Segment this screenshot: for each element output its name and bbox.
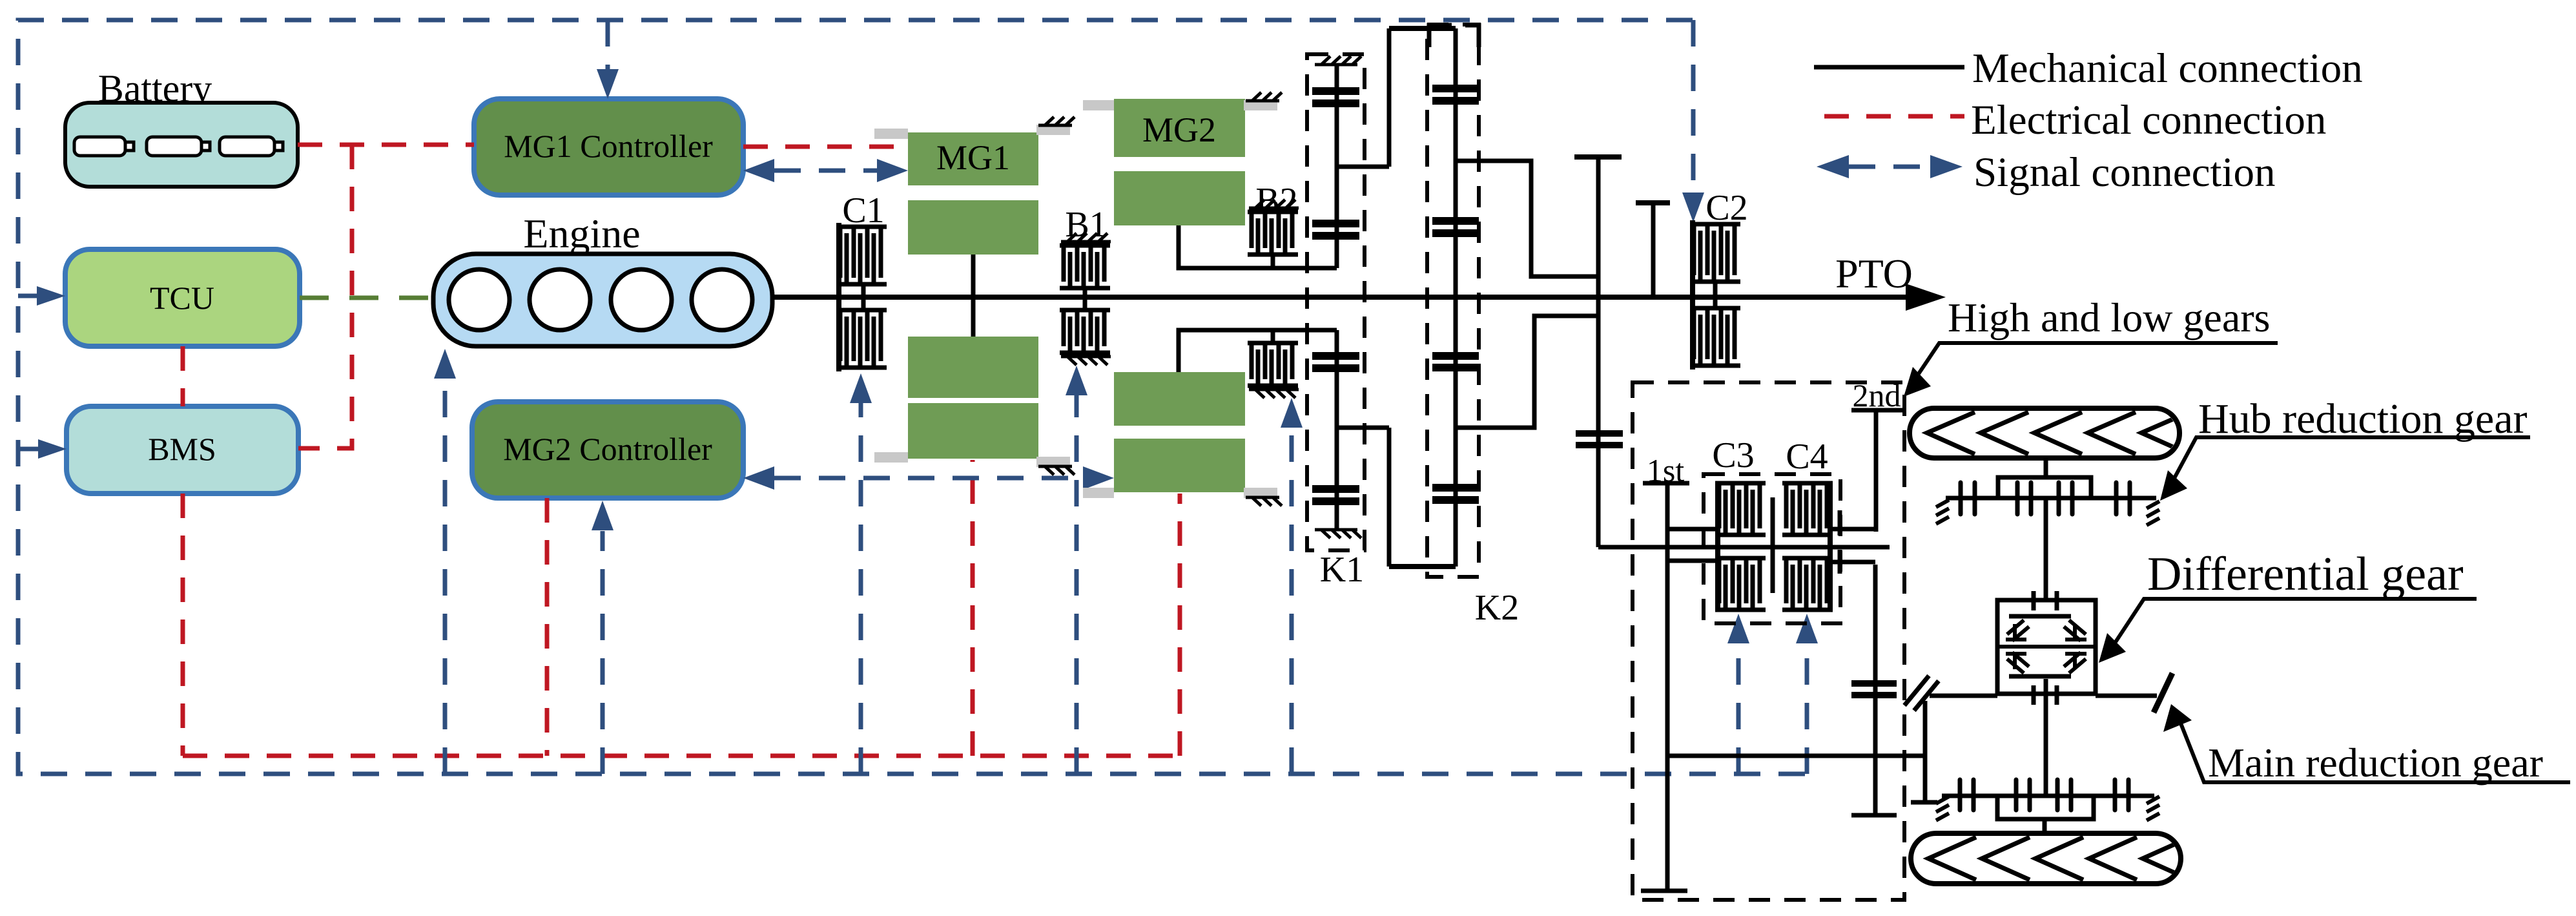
brake B1 hub link [1083,288,1087,310]
hub reduction gear label [2160,395,2530,501]
bottom wheel tire [1911,833,2181,884]
clutch C2 hub link [1713,282,1718,308]
high-low gearbox dashed box [1633,382,1904,900]
svg-text:C4: C4 [1786,437,1828,477]
top hub carrier bracket [1998,477,2091,498]
2nd shaft end bar [1851,813,1897,818]
electrical wire MG2 controller to bus [545,498,550,756]
clutch C3 drum edge [1715,481,1720,612]
differential top bevel bar [2009,614,2071,619]
brake B2 ground hatch bottom [1249,390,1299,398]
MG2 upper rotor block [1114,171,1245,225]
K2 central shaft [1454,28,1458,567]
electrical riser to MG1 lower stator [971,460,975,756]
signal riser to brake B1 [1066,366,1087,774]
clutch C2 drum edge [1690,220,1695,370]
top hub hatch left [1936,500,1949,524]
main shaft wire (engine to PTO) [772,295,1908,300]
countershaft gear tick upper [1838,510,1842,536]
high and low gears label [1904,295,2278,397]
K1 lower carrier riser [1387,428,1392,567]
signal wire down to MG1 controller [597,20,619,99]
TCU box [65,249,300,346]
K1 ring ground hatch top [1315,56,1361,65]
clutch C2 lower comb [1690,308,1740,366]
top hub gear bars [1961,483,2130,514]
main reduction gear label [2163,704,2570,786]
electrical wire MG1 controller to MG1 [743,145,908,149]
svg-text:TCU: TCU [150,280,214,316]
svg-text:Differential gear: Differential gear [2147,548,2464,601]
2nd gear link to C4 upper [1833,527,1876,532]
legend signal connection sample [1817,155,1963,178]
engine block [433,254,772,346]
signal bus outer dashed border (top, left, bottom) [18,20,1807,774]
1st gear link to C3 lower [1667,559,1715,563]
legend mechanical connection sample [1814,65,1964,70]
gear mesh double bar on input shaft [1576,433,1623,445]
K1 lower gear mesh bars [1312,356,1359,501]
bottom hub hatch right [2147,796,2159,820]
signal wire MG2 controller to MG2 (bidirectional) [743,466,1114,490]
svg-text:PTO: PTO [1835,251,1913,297]
MG1 rotor shaft link [971,255,976,337]
C3-C4 clutch pack dashed box [1704,474,1840,623]
2nd gear bar [1851,408,1902,413]
signal riser to engine [434,349,456,774]
BMS box [67,406,298,494]
signal riser to clutch C3 [1727,614,1749,774]
K1 upper gear mesh bars [1312,91,1359,236]
differential bevel hatch marks [2007,620,2086,673]
svg-text:Electrical connection: Electrical connection [1971,97,2326,143]
clutch C3 upper comb [1715,483,1766,535]
2nd gear shaft upper [1874,410,1879,532]
MG1 stator upper block [908,132,1038,185]
PTO shaft gear stem [1651,203,1656,295]
K2 gear mesh bars [1432,88,1479,500]
top hub gear line [1946,496,2156,501]
K1 lower shaft line [1335,330,1339,530]
MG2 stator lower block [1114,439,1245,492]
K2 ring stub top right [1465,25,1479,47]
planetary K1 dashed box [1307,54,1365,550]
electrical bus wire [183,754,1180,758]
2nd gear link to C4 lower [1833,560,1875,565]
differential input ticks top [2034,591,2057,610]
clutch C3 lower comb [1715,558,1766,610]
clutch C2 upper comb [1690,224,1740,282]
K1 upper shaft line [1335,65,1339,268]
output wire to final drive [1667,754,1925,758]
K1 lower carrier jog [1337,426,1389,430]
battery B box [65,103,298,187]
svg-text:BMS: BMS [148,431,216,467]
top hub hatch right [2147,501,2159,525]
bottom hub carrier bracket [1997,796,2094,819]
MG1 stator mount tabs [874,129,908,139]
signal riser to brake B2 [1281,398,1303,774]
svg-text:Mechanical connection: Mechanical connection [1972,45,2363,92]
MG2 lower rotor block [1114,372,1245,426]
svg-text:K1: K1 [1320,550,1364,590]
brake B2 lower stub [1271,330,1275,343]
electrical wire BMS down to bus [181,494,185,756]
top wheel tire [1910,408,2179,458]
K1 upper carrier jog [1337,165,1389,169]
brake B2 upper stub [1271,255,1275,268]
planetary K2 dashed box [1427,25,1479,577]
signal riser to MG2 controller [592,501,613,774]
axle from differential down [2044,679,2048,794]
electrical wire branch down to BMS [298,145,352,448]
1st gear link to C3 upper [1667,527,1715,532]
svg-text:MG2 Controller: MG2 Controller [503,431,712,467]
MG2 frame ground hatch top [1246,92,1282,101]
clutch C4 upper comb [1782,483,1833,535]
clutch C1 upper comb [836,227,887,284]
svg-text:MG2: MG2 [1142,110,1216,149]
differential side gears [2006,624,2087,669]
main reduction gear slash [2154,673,2172,713]
left synchro double slash [1904,676,1939,711]
final drive input end bar [1911,800,1937,805]
MG2 rotor link to K1 sun (upper) [1179,225,1337,268]
svg-text:Signal connection: Signal connection [1973,149,2276,196]
MG2 rotor link to K1 sun (lower) [1179,330,1337,372]
K2 ring stub top left [1429,25,1452,47]
axle horizontal right [2096,694,2157,698]
2nd shaft mesh double bar [1851,683,1897,695]
1st gear shaft end bar [1641,889,1687,893]
differential gear box [1997,600,2096,694]
differential bottom bevel bar [2009,674,2071,679]
differential input ticks bottom [2034,685,2057,705]
signal riser to clutch C1 [850,373,872,774]
brake B2 ground hatch top [1249,200,1299,208]
svg-text:Main reduction gear: Main reduction gear [2208,740,2543,786]
gear bar upper (input gear) [1574,154,1622,160]
brake B1 lower comb [1060,310,1110,353]
brake B1 ground hatch bottom [1061,357,1111,365]
final drive input vertical [1923,701,1928,802]
MG2 stator mount tabs [1083,100,1114,110]
K1 lower link to K2 [1389,564,1456,569]
clutch C1 drum edge [836,223,841,371]
differential mid line [1997,645,2096,649]
axle from hub to differential [2044,498,2048,600]
1st gear shaft [1665,483,1670,891]
svg-text:Engine: Engine [523,211,640,256]
K2 output wire upper [1456,161,1598,276]
1st gear bar [1643,481,1689,486]
svg-text:K2: K2 [1475,588,1519,628]
signal wire down to clutch C2 [1682,20,1704,222]
signal riser to clutch C4 [1796,614,1818,774]
brake B1 upper comb [1060,245,1110,288]
K2 output wire lower [1456,316,1598,428]
bottom hub gear line [1942,794,2154,798]
clutch C4 drum edge [1828,481,1833,612]
svg-text:C3: C3 [1712,435,1754,475]
control wire TCU to engine [300,296,433,300]
brake B1 ground hatch top [1061,233,1111,242]
MG1 upper rotor block [908,200,1038,255]
K1 ring ground hatch bottom [1315,530,1361,538]
brake B2 upper comb [1248,212,1298,255]
signal arrow into BMS [18,439,67,459]
signal arrow into TCU [18,286,65,306]
high-low input shaft [1596,156,1601,547]
countershaft gear tick lower [1838,550,1842,574]
clutch C4 lower comb [1782,558,1833,610]
K1 carrier riser [1387,28,1392,167]
clutch C1 lower comb [836,310,887,368]
MG2 Controller box [472,402,743,498]
bottom hub hatch left [1936,796,1949,820]
MG1 stator lower block [908,403,1038,459]
top wheel stem [2044,458,2048,477]
2nd gear shaft lower [1873,565,1878,815]
MG2 frame ground hatch bottom [1246,497,1282,506]
MG1 frame ground hatch top [1038,117,1075,125]
PTO shaft gear bar [1636,200,1670,205]
svg-text:MG1: MG1 [936,138,1010,177]
PTO output arrowhead [1906,284,1946,311]
C3-C4 hub link [1771,497,1775,593]
MG1 lower rotor block [908,337,1038,398]
brake B2 lower comb [1248,343,1298,386]
MG1 Controller box [474,99,743,195]
svg-text:MG1 Controller: MG1 Controller [504,128,713,164]
K1 carrier to K2 top link [1389,26,1456,31]
electrical wire battery to MG1 controller [298,143,474,147]
signal wire MG1 controller to MG1 (bidirectional) [743,159,908,182]
electrical riser to MG2 lower stator [1178,494,1182,756]
battery cells [74,137,283,156]
svg-text:High and low gears: High and low gears [1948,295,2270,340]
legend electrical connection sample [1824,114,1964,119]
differential gear label [2099,548,2477,663]
MG1 frame ground hatch bottom [1038,466,1075,475]
bottom hub gear bars [1960,780,2128,810]
electrical wire TCU to BMS [181,346,185,406]
MG2 stator upper block [1114,99,1245,157]
countershaft wire [1598,545,1890,550]
clutch C1 hub link [861,284,866,310]
bottom wheel stem [2043,819,2047,833]
axle horizontal left [1930,694,1997,698]
